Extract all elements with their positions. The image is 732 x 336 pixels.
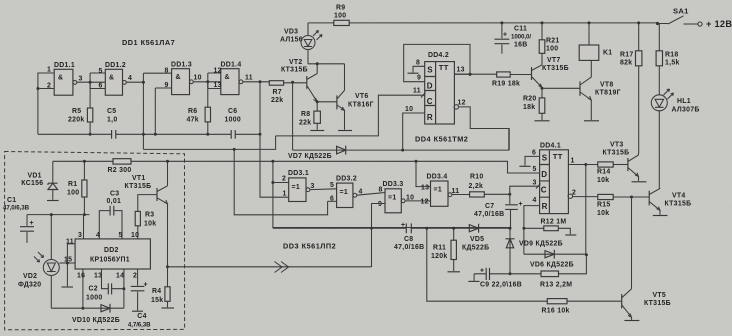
svg-text:R5: R5 bbox=[72, 108, 81, 115]
svg-text:VT2: VT2 bbox=[289, 59, 303, 66]
svg-text:АЛ307Б: АЛ307Б bbox=[672, 107, 700, 114]
svg-text:1000,0/: 1000,0/ bbox=[511, 34, 531, 41]
svg-text:13: 13 bbox=[421, 185, 429, 192]
svg-text:VT6: VT6 bbox=[355, 93, 369, 100]
svg-text:6: 6 bbox=[99, 83, 103, 90]
wire VT1 base to R3 bbox=[138, 195, 157, 212]
svg-text:ФД320: ФД320 bbox=[18, 282, 41, 289]
svg-text:9: 9 bbox=[378, 201, 382, 208]
svg-text:2,2k: 2,2k bbox=[469, 183, 484, 190]
svg-text:C: C bbox=[541, 185, 547, 194]
svg-text:R3: R3 bbox=[145, 212, 154, 219]
svg-text:C: C bbox=[427, 97, 433, 106]
svg-text:47,0/6,3В: 47,0/6,3В bbox=[3, 205, 30, 212]
svg-text:R12 1М: R12 1М bbox=[541, 219, 567, 226]
svg-text:VD10 КД522Б: VD10 КД522Б bbox=[72, 317, 120, 324]
svg-text:КТ315Б: КТ315Б bbox=[281, 67, 308, 74]
svg-text:DD4.2: DD4.2 bbox=[428, 52, 449, 59]
svg-text:VT3: VT3 bbox=[610, 142, 624, 149]
svg-text:VD6 КД522Б: VD6 КД522Б bbox=[530, 262, 574, 269]
SECTION: dashed box bbox=[3, 152, 372, 330]
svg-text:R11: R11 bbox=[433, 245, 446, 252]
wire DD3.2 out to DD3.3 pin8 bbox=[357, 193, 385, 196]
node C8 right / R16 branch bbox=[425, 227, 428, 230]
svg-text:1: 1 bbox=[283, 191, 287, 198]
svg-text:16В: 16В bbox=[514, 42, 528, 49]
SECTION: oscillator DD1 bbox=[36, 38, 269, 149]
wire DD1.3 output bbox=[193, 81, 221, 83]
wire VD2 to pins 11/15 bbox=[59, 262, 67, 264]
wire DD1.4 output bbox=[243, 81, 269, 83]
long control line from dashed box bbox=[53, 161, 540, 173]
ground VT4 bbox=[653, 215, 668, 217]
svg-text:TT: TT bbox=[553, 152, 563, 161]
svg-text:VT5: VT5 bbox=[653, 292, 667, 299]
svg-text:VT4: VT4 bbox=[672, 193, 686, 200]
svg-text:4,7/6,3В: 4,7/6,3В bbox=[128, 322, 151, 329]
svg-text:DD4 К561ТМ2: DD4 К561ТМ2 bbox=[415, 135, 468, 144]
svg-text:VD5: VD5 bbox=[470, 236, 484, 243]
wire pin2 bbox=[273, 182, 289, 184]
svg-text:R2 300: R2 300 bbox=[108, 167, 132, 174]
svg-text:K1: K1 bbox=[603, 50, 612, 57]
svg-text:R7: R7 bbox=[273, 89, 282, 96]
svg-text:VD3: VD3 bbox=[284, 29, 298, 36]
node VD7 line / DD4.2 R bbox=[401, 149, 404, 152]
SECTION: top right bbox=[454, 7, 732, 189]
SECTION: DD4.1 area bbox=[474, 142, 691, 255]
svg-text:13: 13 bbox=[214, 82, 222, 89]
svg-text:VD9 КД522Б: VD9 КД522Б bbox=[519, 241, 563, 248]
svg-text:5: 5 bbox=[330, 182, 334, 189]
svg-text:11: 11 bbox=[413, 88, 421, 95]
svg-text:АЛ156: АЛ156 bbox=[280, 37, 303, 44]
SECTION: bottom right bbox=[273, 165, 671, 321]
svg-text:DD1.3: DD1.3 bbox=[171, 62, 192, 69]
wire R9 to +12V rail bbox=[349, 22, 658, 24]
svg-text:D: D bbox=[541, 170, 547, 179]
svg-text:DD1.2: DD1.2 bbox=[105, 62, 126, 69]
svg-text:15k: 15k bbox=[151, 297, 163, 304]
svg-text:100: 100 bbox=[546, 46, 558, 53]
svg-text:&: & bbox=[109, 75, 114, 82]
svg-text:12: 12 bbox=[458, 100, 466, 107]
svg-text:3: 3 bbox=[78, 232, 82, 239]
svg-text:=1: =1 bbox=[434, 187, 442, 194]
svg-text:R8: R8 bbox=[301, 111, 310, 118]
dashed enclosure bbox=[5, 152, 185, 330]
wire DD1.2 input tie bbox=[90, 73, 105, 89]
svg-text:1000: 1000 bbox=[86, 295, 103, 302]
svg-text:КТ315Б: КТ315Б bbox=[665, 201, 692, 208]
svg-text:R9: R9 bbox=[336, 5, 345, 12]
svg-text:R: R bbox=[427, 113, 433, 122]
wire DD1.2 out line to DD3.2/DD4.2 clock bbox=[143, 136, 275, 150]
node VD9 top bbox=[509, 227, 512, 230]
node R5 bottom bbox=[89, 133, 92, 136]
svg-text:VT7: VT7 bbox=[547, 57, 561, 64]
svg-text:R14: R14 bbox=[597, 169, 611, 176]
svg-text:18k: 18k bbox=[523, 104, 535, 111]
node DD1.1 input junction bbox=[36, 87, 39, 90]
svg-text:DD2: DD2 bbox=[104, 247, 119, 254]
svg-text:10: 10 bbox=[405, 106, 413, 113]
SECTION: DD4.2 bbox=[276, 44, 510, 150]
wire DD3.3 out to DD3.4 pin12 bbox=[405, 200, 430, 202]
svg-text:=1: =1 bbox=[388, 195, 396, 202]
svg-text:22k: 22k bbox=[271, 97, 283, 104]
svg-text:R15: R15 bbox=[597, 202, 611, 209]
svg-text:D: D bbox=[427, 81, 433, 90]
svg-text:C3: C3 bbox=[110, 191, 119, 198]
svg-text:13: 13 bbox=[457, 67, 465, 74]
wire DD1.1 inputs bbox=[38, 73, 54, 134]
wire branch down to DD3.2 pin 6 line bbox=[234, 149, 327, 214]
svg-text:+: + bbox=[503, 32, 507, 39]
svg-text:DD3 К561ЛП2: DD3 К561ЛП2 bbox=[283, 242, 336, 251]
svg-text:1: 1 bbox=[47, 67, 51, 74]
svg-text:DD3.3: DD3.3 bbox=[383, 181, 404, 188]
svg-text:R10: R10 bbox=[470, 174, 484, 181]
svg-text:12: 12 bbox=[421, 199, 429, 206]
svg-text:4: 4 bbox=[96, 232, 100, 239]
wire DD1.4 input tie bbox=[208, 73, 221, 89]
svg-text:3: 3 bbox=[311, 183, 315, 190]
svg-text:3: 3 bbox=[533, 180, 537, 187]
svg-text:5: 5 bbox=[533, 166, 537, 173]
wire R7 node down to VD7 line bbox=[292, 82, 294, 150]
svg-text:DD3.2: DD3.2 bbox=[336, 176, 357, 183]
svg-text:9: 9 bbox=[417, 75, 421, 82]
svg-text:5: 5 bbox=[99, 68, 103, 75]
IC DD2 bbox=[75, 239, 150, 269]
svg-text:R: R bbox=[542, 202, 548, 211]
svg-text:10: 10 bbox=[131, 232, 139, 239]
svg-text:R21: R21 bbox=[546, 38, 560, 45]
svg-text:R6: R6 bbox=[188, 108, 197, 115]
wire DD1.1 output bbox=[77, 81, 106, 83]
svg-text:C7: C7 bbox=[485, 203, 494, 210]
wire pin6 bbox=[328, 200, 337, 202]
VT1 emitter line with R4 and arrows bbox=[166, 265, 169, 268]
svg-text:КТ315Б: КТ315Б bbox=[644, 300, 671, 307]
svg-text:C2: C2 bbox=[89, 286, 98, 293]
ground VT5 bbox=[624, 320, 639, 322]
ground R11 bbox=[448, 271, 461, 273]
svg-text:R17: R17 bbox=[620, 52, 634, 59]
connector arrows bbox=[275, 262, 289, 273]
svg-text:+: + bbox=[144, 282, 148, 289]
svg-text:TT: TT bbox=[439, 63, 449, 72]
svg-text:SA1: SA1 bbox=[673, 7, 689, 16]
svg-text:DD1 К561ЛА7: DD1 К561ЛА7 bbox=[122, 38, 175, 47]
node VT2 base / R7 bbox=[291, 81, 294, 84]
svg-text:14: 14 bbox=[116, 273, 124, 280]
node C9/VD9/R13 bbox=[509, 272, 512, 275]
svg-text:+ 12В: + 12В bbox=[706, 19, 732, 29]
svg-text:КС156: КС156 bbox=[21, 180, 43, 187]
svg-text:0,01: 0,01 bbox=[107, 198, 122, 205]
ground VT8 bbox=[584, 120, 599, 122]
SECTION: middle lines bbox=[53, 129, 540, 228]
svg-text:VD1: VD1 bbox=[28, 173, 42, 180]
wire pin9 from VT1 emitter line bbox=[372, 204, 386, 268]
svg-text:16: 16 bbox=[77, 273, 85, 280]
node DD3.1 pin2 branch bbox=[271, 160, 274, 163]
svg-text:5: 5 bbox=[119, 232, 123, 239]
svg-text:11: 11 bbox=[245, 75, 253, 82]
svg-text:C11: C11 bbox=[514, 26, 527, 33]
svg-text:R20: R20 bbox=[523, 96, 537, 103]
svg-text:R4: R4 bbox=[152, 288, 161, 295]
svg-text:&: & bbox=[58, 75, 63, 82]
wire DD3.4 out to R10 bbox=[452, 194, 470, 196]
svg-text:DD1.1: DD1.1 bbox=[54, 62, 75, 69]
svg-text:4: 4 bbox=[128, 75, 132, 82]
svg-text:100: 100 bbox=[67, 190, 79, 197]
node R5 top bbox=[89, 81, 92, 84]
svg-text:DD1.4: DD1.4 bbox=[221, 62, 242, 69]
SECTION: top mid bbox=[269, 5, 658, 151]
svg-text:R18: R18 bbox=[665, 52, 679, 59]
svg-text:2: 2 bbox=[282, 176, 286, 183]
svg-text:=1: =1 bbox=[292, 184, 300, 191]
svg-text:КТ819Г: КТ819Г bbox=[595, 90, 621, 97]
svg-text:КТ315Б: КТ315Б bbox=[542, 65, 569, 72]
svg-text:47,0/16В: 47,0/16В bbox=[394, 244, 424, 251]
svg-text:1: 1 bbox=[571, 158, 575, 165]
wire VT5 collector up to R15 line bbox=[631, 197, 633, 289]
svg-text:10: 10 bbox=[194, 75, 202, 82]
svg-text:КТ315Б: КТ315Б bbox=[603, 150, 630, 157]
svg-text:КТ816Г: КТ816Г bbox=[348, 102, 374, 109]
ground VT3 bbox=[632, 181, 647, 183]
svg-text:1,0: 1,0 bbox=[107, 117, 117, 124]
line C1/VD2/pin3 bbox=[27, 215, 90, 239]
svg-text:=1: =1 bbox=[340, 189, 348, 196]
svg-text:8: 8 bbox=[416, 60, 420, 67]
svg-text:VT8: VT8 bbox=[600, 82, 614, 89]
svg-text:DD3.1: DD3.1 bbox=[288, 170, 309, 177]
svg-text:VT1: VT1 bbox=[132, 175, 146, 182]
svg-text:82k: 82k bbox=[620, 60, 632, 67]
ground VT7/R20 bbox=[535, 120, 550, 122]
SECTION: DD3 gates bbox=[260, 134, 511, 267]
svg-text:VD7 КД522Б: VD7 КД522Б bbox=[288, 153, 332, 160]
svg-text:DD3.4: DD3.4 bbox=[427, 174, 448, 181]
svg-text:1,5k: 1,5k bbox=[665, 60, 680, 67]
wire VD3 top to R9 bbox=[308, 23, 334, 36]
svg-text:12: 12 bbox=[214, 68, 222, 75]
svg-text:C1: C1 bbox=[7, 197, 16, 204]
svg-text:C9 22,0\16В: C9 22,0\16В bbox=[480, 282, 522, 289]
svg-text:47k: 47k bbox=[187, 117, 199, 124]
node C pin node bbox=[508, 193, 511, 196]
svg-text:10k: 10k bbox=[144, 221, 156, 228]
svg-text:R16 10k: R16 10k bbox=[542, 308, 570, 315]
svg-text:R1: R1 bbox=[68, 181, 77, 188]
svg-text:C6: C6 bbox=[228, 108, 237, 115]
wire down to R16 line bbox=[427, 228, 548, 301]
svg-text:R13 2,2М: R13 2,2М bbox=[540, 282, 572, 289]
svg-text:S: S bbox=[542, 153, 548, 162]
svg-text:3: 3 bbox=[79, 76, 83, 83]
wire DD3.1 out to DD3.2 pin5 bbox=[310, 188, 337, 191]
wire VT7 emitter to VT8 base bbox=[542, 87, 580, 89]
svg-text:8: 8 bbox=[379, 187, 383, 194]
svg-text:&: & bbox=[176, 74, 181, 81]
svg-text:C8: C8 bbox=[404, 236, 413, 243]
svg-text:R19 18k: R19 18k bbox=[492, 81, 520, 88]
svg-text:47,0/16В: 47,0/16В bbox=[474, 211, 504, 218]
wire DD1.2 out down to C5 rail and lower line bbox=[142, 73, 144, 149]
wire VD3 bottom to collector line bbox=[308, 50, 345, 64]
svg-text:1000: 1000 bbox=[225, 117, 242, 124]
wire pin1 down to VD6/R13 bbox=[585, 165, 587, 255]
svg-text:КТ315Б: КТ315Б bbox=[125, 183, 152, 190]
svg-text:&: & bbox=[225, 74, 230, 81]
svg-text:22k: 22k bbox=[299, 120, 311, 127]
svg-text:100: 100 bbox=[334, 13, 346, 20]
svg-text:C4: C4 bbox=[137, 313, 146, 320]
svg-text:10k: 10k bbox=[597, 177, 609, 184]
ground VT2/R8 bbox=[310, 130, 324, 132]
wire pin1 from osc2 bbox=[260, 134, 289, 197]
svg-text:8: 8 bbox=[165, 68, 169, 75]
pin 16 wire bbox=[82, 269, 84, 308]
svg-text:4: 4 bbox=[533, 197, 537, 204]
wire DD1.2 output bbox=[126, 81, 143, 83]
svg-text:9: 9 bbox=[165, 82, 169, 89]
svg-text:КР1056УП1: КР1056УП1 bbox=[90, 257, 130, 264]
svg-text:120k: 120k bbox=[431, 253, 448, 260]
svg-text:11: 11 bbox=[452, 188, 460, 195]
ground VT6 bbox=[338, 130, 352, 132]
wire VT2 emitter to VT6 base bbox=[316, 100, 319, 103]
svg-text:220k: 220k bbox=[68, 117, 85, 124]
pin 14 wire bbox=[123, 269, 125, 308]
svg-text:6: 6 bbox=[532, 150, 536, 157]
svg-text:10k: 10k bbox=[597, 210, 609, 217]
svg-text:VD2: VD2 bbox=[23, 273, 37, 280]
svg-text:+: + bbox=[519, 201, 523, 208]
svg-text:HL1: HL1 bbox=[677, 98, 691, 105]
svg-text:C5: C5 bbox=[107, 108, 116, 115]
svg-text:КД522Б: КД522Б bbox=[462, 245, 489, 252]
svg-text:+: + bbox=[30, 220, 34, 227]
wire rail to DD1.3 pin9 bbox=[143, 133, 207, 135]
node DD3.4 pin13 branch bbox=[415, 160, 418, 163]
wire C6 feedback up to output bbox=[259, 82, 261, 135]
svg-text:S: S bbox=[427, 66, 433, 75]
svg-text:2: 2 bbox=[133, 273, 137, 280]
svg-text:DD4.1: DD4.1 bbox=[540, 143, 561, 150]
wire to DD1.3 pin8 bbox=[143, 72, 171, 74]
